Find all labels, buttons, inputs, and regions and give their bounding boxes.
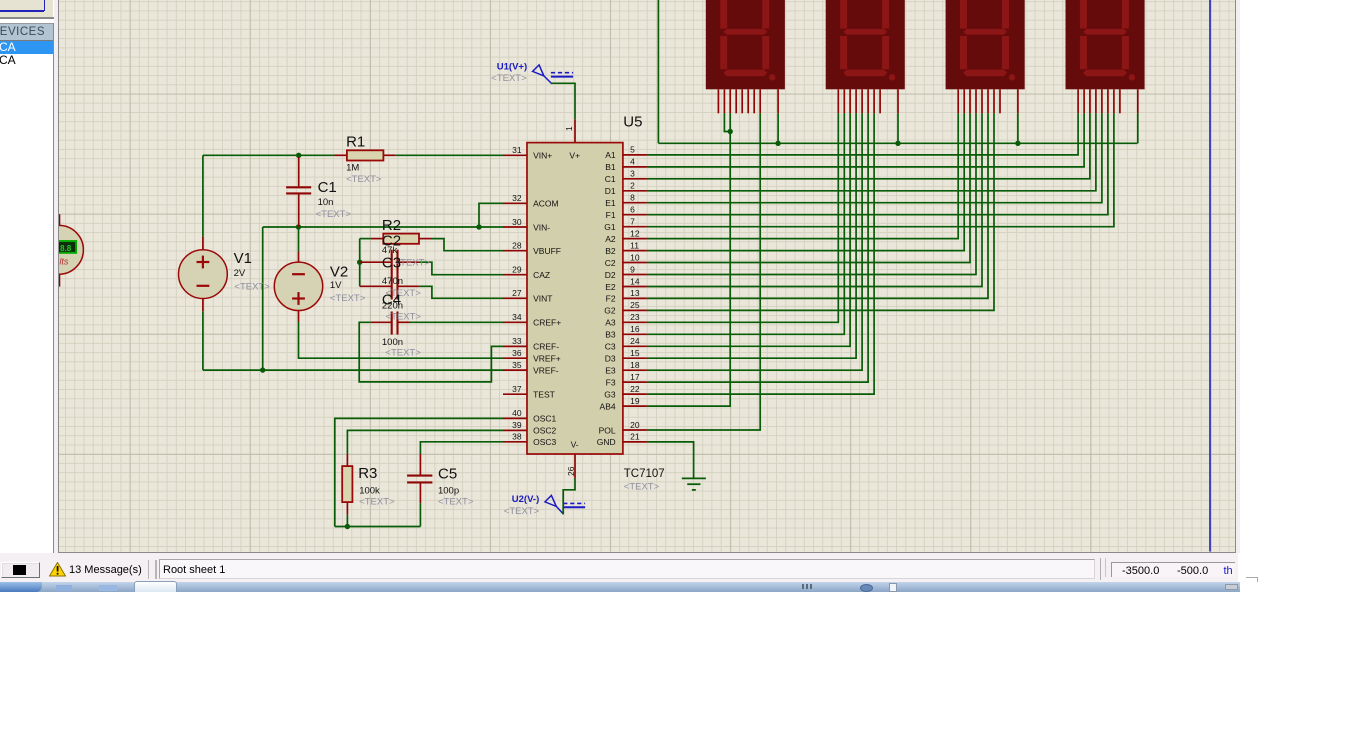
svg-text:7: 7 [630, 217, 635, 227]
svg-text:V1: V1 [234, 250, 252, 267]
wire U5 pin 24 (C3) to display DS2 [647, 113, 850, 346]
wire R2 right to VBUFF (pin 28) [432, 239, 504, 251]
wire VREF- net (row 35) [203, 369, 503, 371]
wire oscillator bottom rail [335, 526, 421, 528]
svg-text:G2: G2 [605, 306, 617, 316]
U5 right pin numbers [630, 145, 640, 442]
node corner V1 top [202, 155, 204, 237]
U5 left pin names [533, 151, 561, 448]
wire U5 pin 16 (B3) to display DS2 [647, 113, 844, 334]
junction display DS2 common / bus [896, 141, 901, 146]
U5 left pin numbers [513, 145, 523, 442]
wire C3 right to CAZ (pin 29) [419, 262, 503, 275]
capacitor C1 [286, 157, 311, 227]
svg-text:C1: C1 [318, 179, 337, 196]
wire R3 bottom leg [347, 515, 349, 527]
svg-text:16: 16 [630, 324, 640, 334]
resistor R1 [335, 150, 396, 160]
wire U5 pin 15 (D3) to display DS2 [647, 113, 856, 358]
svg-text:23: 23 [630, 312, 640, 322]
junction C3 left [357, 260, 362, 265]
svg-text:C3: C3 [605, 342, 616, 352]
svg-text:27: 27 [513, 288, 523, 298]
wire U5 pin 13 (F2) to display DS3 [647, 113, 988, 298]
svg-text:R2: R2 [382, 217, 401, 234]
svg-text:220n: 220n [382, 301, 403, 312]
svg-text:<TEXT>: <TEXT> [316, 209, 352, 220]
wire U5 pin 21 (GND) to ground [647, 442, 694, 478]
resistor R3 [343, 454, 353, 515]
junction VREF- / VIN- leg [260, 367, 265, 372]
svg-text:36: 36 [513, 348, 523, 358]
sheet boundary (blue) [1209, 0, 1211, 552]
taskbar tab [134, 581, 176, 592]
wire V+ flag to U5 pin 1 [551, 83, 575, 119]
op-amp/ADC U5 TC7107 body [527, 143, 623, 454]
svg-text:C5: C5 [438, 466, 457, 483]
wire U5 pin 10 (C2) to display DS3 [647, 113, 970, 262]
wire R2/C3/C4 left rail [359, 239, 361, 287]
svg-text:V-: V- [571, 440, 579, 450]
wire U5 pin 19 (AB4) to display DS1 B/C [647, 113, 730, 406]
wire ACOM (row 32) [479, 203, 503, 227]
svg-text:24: 24 [630, 336, 640, 346]
svg-text:<TEXT>: <TEXT> [346, 174, 382, 185]
svg-text:8.8: 8.8 [60, 244, 72, 253]
svg-text:38: 38 [513, 432, 523, 442]
svg-text:100k: 100k [360, 485, 381, 496]
svg-text:34: 34 [513, 312, 523, 322]
svg-text:10: 10 [630, 252, 640, 262]
device list item 7SEG CA (selected) [0, 41, 53, 53]
wire V+ bus horizontal [659, 142, 1138, 144]
capacitor C3 (470n) [360, 250, 419, 275]
svg-text:29: 29 [513, 265, 523, 275]
svg-text:20: 20 [630, 420, 640, 430]
svg-text:D2: D2 [605, 270, 616, 280]
wire VIN- down leg [262, 227, 264, 370]
U5 bottom pin (V-, pin 26) [574, 454, 576, 478]
svg-text:GND: GND [597, 437, 616, 447]
svg-text:<TEXT>: <TEXT> [386, 312, 422, 323]
junction VIN- / C1 bottom / V2 top [296, 224, 301, 229]
root sheet field [159, 559, 1095, 580]
warning icon [49, 562, 66, 577]
wire U5 pin 9 (D2) to display DS3 [647, 113, 976, 274]
svg-text:32: 32 [513, 193, 523, 203]
svg-text:17: 17 [630, 372, 640, 382]
separator grooves [148, 560, 149, 579]
svg-text:U5: U5 [624, 114, 643, 131]
resistor R2 [371, 234, 432, 244]
display DS1 pins [719, 89, 779, 113]
svg-text:39: 39 [513, 420, 523, 430]
wire VIN+ net (row 31) [203, 154, 335, 156]
wire U5 pin 5 (A1) to display DS4 [647, 113, 1078, 155]
wire U5 pin 14 (E2) to display DS3 [647, 113, 982, 286]
svg-text:POL: POL [599, 425, 616, 435]
svg-text:<TEXT>: <TEXT> [504, 506, 540, 517]
svg-text:<TEXT>: <TEXT> [386, 347, 422, 358]
svg-text:10n: 10n [318, 197, 334, 208]
U5 right pin stubs [623, 155, 647, 442]
battery V1 [179, 237, 228, 311]
svg-text:E1: E1 [606, 198, 617, 208]
junction display DS1 common / bus [776, 141, 781, 146]
svg-text:<TEXT>: <TEXT> [492, 73, 528, 84]
7-seg display DS1 body [706, 0, 785, 89]
coordinate display [1100, 558, 1101, 580]
svg-text:15: 15 [630, 348, 640, 358]
display DS4 pins [1078, 89, 1138, 113]
window fragment top-right of taskbar [1246, 577, 1258, 582]
wire V2 bottom to VREF+ (pin 36) [299, 322, 504, 359]
svg-text:F2: F2 [606, 294, 616, 304]
wire U5 pin 25 (G2) to display DS3 [647, 113, 994, 310]
panel right border [53, 23, 54, 553]
svg-text:R3: R3 [359, 465, 378, 482]
simulation stop button [1, 562, 40, 578]
svg-text:VREF+: VREF+ [533, 354, 561, 364]
svg-text:D1: D1 [605, 186, 616, 196]
svg-text:<TEXT>: <TEXT> [438, 496, 474, 507]
capacitor C4 (220n) [360, 275, 419, 300]
voltmeter (clipped at canvas edge) [35, 214, 84, 286]
wire C4 right to VINT (pin 27) [419, 286, 503, 298]
svg-text:470n: 470n [382, 276, 403, 287]
svg-text:4: 4 [630, 157, 635, 167]
svg-text:B3: B3 [606, 330, 617, 340]
7-seg display DS3 body [946, 0, 1025, 89]
wire VIN- net (row 30) [263, 226, 503, 228]
svg-text:VIN-: VIN- [533, 222, 550, 232]
svg-text:VINT: VINT [533, 294, 552, 304]
wire U5 pin 4 (B1) to display DS4 [647, 113, 1084, 167]
wire U5 pin 22 (G3) to display DS2 [647, 113, 874, 394]
DEVICES panel [0, 23, 53, 24]
wire V1 bottom leg [202, 311, 204, 370]
svg-text:100p: 100p [438, 485, 459, 496]
svg-text:C2: C2 [605, 258, 616, 268]
svg-text:2V: 2V [234, 268, 246, 279]
svg-text:C3: C3 [382, 254, 401, 271]
status text 13 Message(s) [69, 564, 142, 576]
svg-text:2: 2 [630, 181, 635, 191]
svg-text:3: 3 [630, 169, 635, 179]
7-seg display DS4 body [1066, 0, 1145, 89]
svg-text:30: 30 [513, 217, 523, 227]
svg-text:5: 5 [630, 145, 635, 155]
junction VIN- / ACOM [477, 224, 482, 229]
wire OSC3 (pin 38) to C5 [421, 442, 504, 454]
wire U5 V- to flag [564, 478, 576, 514]
wire display DS4 common anode to bus [1137, 113, 1139, 143]
svg-text:AB4: AB4 [600, 401, 616, 411]
wire display DS3 common anode to bus [1017, 113, 1019, 143]
svg-text:21: 21 [630, 432, 640, 442]
svg-text:26: 26 [566, 466, 576, 476]
svg-text:22: 22 [630, 384, 640, 394]
svg-text:G1: G1 [605, 222, 617, 232]
svg-text:V+: V+ [570, 151, 581, 161]
svg-text:R1: R1 [346, 134, 365, 151]
junction VIN+ / C1 top [296, 153, 301, 158]
svg-text:12: 12 [630, 228, 640, 238]
schematic sheet grid [59, 0, 1235, 552]
svg-text:OSC2: OSC2 [533, 426, 556, 436]
svg-text:G3: G3 [605, 389, 617, 399]
wire C6 (100n) left to CREF- (pin 33) [360, 322, 504, 382]
wire U5 pin 17 (F3) to display DS2 [647, 113, 868, 382]
svg-text:14: 14 [630, 276, 640, 286]
svg-text:11: 11 [630, 240, 639, 250]
svg-text:<TEXT>: <TEXT> [624, 481, 660, 492]
svg-text:CREF+: CREF+ [533, 318, 561, 328]
svg-text:A3: A3 [606, 318, 617, 328]
svg-text:A2: A2 [606, 234, 617, 244]
svg-text:6: 6 [630, 205, 635, 215]
wire U5 pin 20 (POL) to display DS1 G [647, 113, 760, 430]
svg-text:OSC3: OSC3 [533, 437, 556, 447]
device list item CA [0, 54, 53, 66]
svg-text:35: 35 [513, 360, 523, 370]
svg-text:18: 18 [630, 360, 640, 370]
svg-text:OSC1: OSC1 [533, 414, 556, 424]
wire U5 pin 18 (E3) to display DS2 [647, 113, 862, 370]
svg-text:1: 1 [564, 126, 574, 131]
overview pane (top-left) [0, 0, 53, 17]
svg-text:E2: E2 [606, 282, 617, 292]
taskbar sliver [0, 582, 1240, 592]
svg-text:V2: V2 [330, 263, 348, 280]
svg-text:1M: 1M [346, 163, 359, 174]
svg-text:F1: F1 [606, 210, 616, 220]
wire U5 pin 8 (E1) to display DS4 [647, 113, 1102, 202]
wire C6 (100n) right to CREF+ (pin 34) [410, 321, 504, 323]
svg-text:8: 8 [630, 193, 635, 203]
svg-text:B1: B1 [606, 162, 617, 172]
wire U5 pin 12 (A2) to display DS3 [647, 113, 958, 238]
svg-text:<TEXT>: <TEXT> [235, 281, 271, 292]
svg-text:VREF-: VREF- [533, 365, 559, 375]
wire C5 bottom leg [420, 503, 422, 526]
svg-text:40: 40 [513, 408, 523, 418]
wire V2 top leg [298, 227, 300, 252]
capacitor C6 (100n between CREF pins) [371, 312, 410, 335]
svg-text:E3: E3 [606, 366, 617, 376]
wire V+ rail vertical [658, 0, 660, 143]
svg-text:B2: B2 [606, 246, 617, 256]
wire U5 pin 3 (C1) to display DS4 [647, 113, 1090, 179]
svg-text:VIN+: VIN+ [533, 151, 552, 161]
wire display DS1 pin B jog [725, 113, 731, 131]
svg-text:A1: A1 [606, 150, 617, 160]
status bar [0, 553, 1238, 582]
wire OSC2 (pin 39) to R3 [348, 430, 504, 454]
svg-text:13: 13 [630, 288, 640, 298]
wire U5 pin 6 (F1) to display DS4 [647, 113, 1108, 214]
svg-text:<TEXT>: <TEXT> [360, 496, 396, 507]
svg-text:100n: 100n [382, 337, 403, 348]
svg-text:TC7107: TC7107 [624, 468, 665, 480]
wire display DS2 common anode to bus [897, 113, 899, 143]
svg-text:<TEXT>: <TEXT> [330, 293, 366, 304]
svg-text:37: 37 [513, 384, 523, 394]
svg-text:VBUFF: VBUFF [533, 246, 561, 256]
7-seg display DS2 body [826, 0, 905, 89]
display DS2 pins [839, 89, 899, 113]
svg-text:25: 25 [630, 300, 640, 310]
svg-text:CAZ: CAZ [533, 270, 550, 280]
svg-text:CREF-: CREF- [533, 342, 559, 352]
power flag U2(V-) [545, 495, 585, 514]
battery V2 [275, 252, 323, 322]
svg-text:33: 33 [513, 336, 523, 346]
overview viewport blue rectangle corner [0, 10, 44, 11]
wire R2 left link [360, 238, 371, 240]
svg-text:lts: lts [60, 256, 70, 266]
svg-text:U2(V-): U2(V-) [512, 494, 539, 505]
wire display DS1 common anode to bus [777, 113, 779, 143]
svg-text:TEST: TEST [533, 390, 555, 400]
svg-text:31: 31 [513, 145, 523, 155]
svg-text:U1(V+): U1(V+) [497, 62, 527, 73]
junction DS1 B/C tie [728, 129, 733, 134]
junction display DS3 common / bus [1016, 141, 1021, 146]
svg-text:19: 19 [630, 396, 640, 406]
svg-text:9: 9 [630, 264, 635, 274]
ground symbol [682, 478, 706, 490]
taskbar small icons [802, 584, 812, 589]
svg-text:D3: D3 [605, 354, 616, 364]
U5 top pin (V+, pin 1) [574, 119, 576, 142]
U5 left pin stubs [503, 155, 527, 442]
wire OSC1 (pin 40) [335, 418, 503, 526]
schematic canvas border [58, 0, 59, 553]
capacitor C5 [407, 454, 432, 503]
wire U5 pin 11 (B2) to display DS3 [647, 113, 964, 250]
svg-text:ACOM: ACOM [533, 199, 559, 209]
wire U5 pin 23 (A3) to display DS2 [647, 113, 838, 322]
svg-text:28: 28 [513, 241, 523, 251]
svg-text:F3: F3 [606, 377, 616, 387]
power flag U1(V+) [533, 65, 574, 84]
svg-text:C1: C1 [605, 174, 616, 184]
svg-text:1V: 1V [330, 280, 342, 291]
wire U5 pin 2 (D1) to display DS4 [647, 113, 1096, 191]
U5 right pin names [597, 150, 616, 447]
display DS3 pins [959, 89, 1019, 113]
junction R3 bottom / rail [345, 524, 350, 529]
wire U5 pin 7 (G1) to display DS4 [647, 113, 1114, 226]
